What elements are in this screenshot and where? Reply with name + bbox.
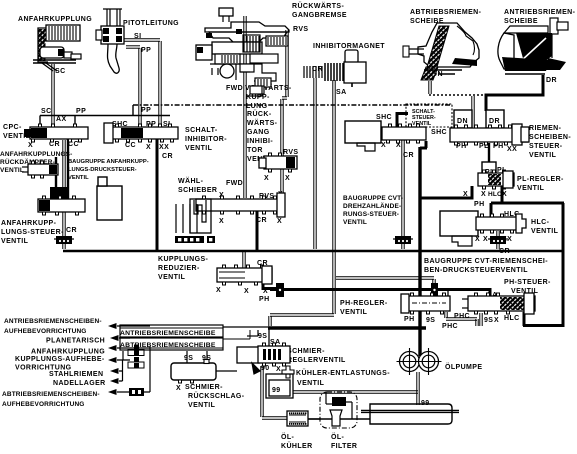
svg-text:X: X [219,218,224,225]
svg-text:PHC: PHC [442,323,458,330]
svg-text:XX: XX [507,146,517,153]
svg-text:NADELLAGER: NADELLAGER [53,380,106,387]
svg-text:ABTRIEBSRIEMENSCHEIBEN-: ABTRIEBSRIEMENSCHEIBEN- [2,391,100,398]
svg-text:VORRICHTUNG: VORRICHTUNG [15,365,72,372]
svg-text:RUNGS-STEUER-: RUNGS-STEUER- [343,211,399,218]
svg-text:RÜCKWÄRTS-: RÜCKWÄRTS- [292,1,344,10]
svg-text:ANTRIEBSRIEMEN-: ANTRIEBSRIEMEN- [504,9,576,16]
svg-text:PH: PH [259,296,270,303]
svg-text:PITOTLEITUNG: PITOTLEITUNG [123,20,179,27]
svg-text:RVS: RVS [293,26,308,33]
svg-text:LUNGS-STEUER-: LUNGS-STEUER- [1,229,64,236]
svg-text:BAUGRUPPE CVT-: BAUGRUPPE CVT- [343,195,403,202]
svg-text:BAUGRUPPE ANFAHRKUPP-: BAUGRUPPE ANFAHRKUPP- [68,159,149,165]
svg-text:ANFAHRKUPPLUNGS-: ANFAHRKUPPLUNGS- [0,151,72,158]
svg-text:HLC: HLC [504,315,520,322]
svg-text:RÜCK-: RÜCK- [247,109,272,118]
svg-text:X: X [463,191,468,198]
svg-text:X: X [481,191,486,198]
svg-text:STAHLRIEMEN: STAHLRIEMEN [49,371,103,378]
svg-text:PL-REGLER-: PL-REGLER- [517,176,564,183]
svg-text:PHC: PHC [454,313,470,320]
svg-text:PH: PH [474,201,485,208]
svg-text:TOR: TOR [247,147,263,154]
svg-text:SCHIEBER: SCHIEBER [178,187,217,194]
svg-text:AUFHEBEVORRICHTUNG: AUFHEBEVORRICHTUNG [2,401,85,408]
svg-text:CC: CC [125,142,136,149]
svg-text:KÜHLER: KÜHLER [281,441,313,449]
svg-text:99: 99 [272,387,281,394]
svg-text:DN: DN [457,118,468,125]
svg-text:VENTIL: VENTIL [158,274,186,281]
svg-text:LUNGS-DRUCKSTEUER-: LUNGS-DRUCKSTEUER- [68,167,137,173]
svg-text:BAUGRUPPE CVT-RIEMENSCHEI-: BAUGRUPPE CVT-RIEMENSCHEI- [424,258,548,265]
svg-text:PH-REGLER-: PH-REGLER- [340,300,388,307]
svg-text:RVS: RVS [283,149,298,156]
svg-text:X: X [28,142,33,149]
svg-text:X: X [216,287,221,294]
svg-text:SA: SA [336,89,347,96]
svg-text:X: X [285,175,290,182]
svg-text:9S: 9S [426,317,435,324]
svg-text:ÖL-: ÖL- [281,432,295,441]
svg-text:WÄHL-: WÄHL- [178,177,204,185]
svg-text:DREHZAHLÄNDE-: DREHZAHLÄNDE- [343,202,401,210]
svg-text:FWD: FWD [226,85,243,92]
svg-text:SCHMIER-: SCHMIER- [287,348,325,355]
svg-text:RIEMEN-: RIEMEN- [529,125,562,132]
svg-text:X: X [244,288,249,295]
svg-text:X: X [276,366,281,373]
svg-text:ABTRIEBSRIEMEN-: ABTRIEBSRIEMEN- [410,9,482,16]
svg-text:DR: DR [546,77,557,84]
svg-text:X: X [381,142,386,149]
svg-text:BEN-DRUCKSTEUERVENTIL: BEN-DRUCKSTEUERVENTIL [424,267,528,274]
svg-text:X: X [176,385,181,392]
svg-text:AUFHEBEVORRICHTUNG: AUFHEBEVORRICHTUNG [4,328,87,335]
svg-text:PP: PP [141,47,151,54]
svg-text:SC: SC [55,68,66,75]
svg-text:X: X [277,218,282,225]
svg-text:VENTIL: VENTIL [412,121,432,127]
svg-text:DR: DR [489,118,500,125]
svg-text:LUNG: LUNG [246,103,268,110]
svg-text:SC: SC [41,108,52,115]
svg-text:VENTIL: VENTIL [188,402,216,409]
svg-text:VENTIL: VENTIL [343,219,367,226]
svg-text:SCHEIBEN-: SCHEIBEN- [529,134,571,141]
svg-text:KÜHLER-ENTLASTUNGS-: KÜHLER-ENTLASTUNGS- [296,368,390,377]
svg-text:X: X [494,317,499,324]
svg-text:ANFAHRKUPPLUNG: ANFAHRKUPPLUNG [18,16,92,23]
svg-text:RÜCKSCHLAG-: RÜCKSCHLAG- [188,391,245,400]
svg-text:X: X [264,175,269,182]
svg-text:CPC-: CPC- [3,124,22,131]
svg-text:X: X [475,236,480,243]
svg-text:VENTIL: VENTIL [0,167,24,174]
svg-text:INHIBITOR-: INHIBITOR- [185,136,227,143]
svg-text:REGLERVENTIL: REGLERVENTIL [287,357,346,364]
svg-text:PH-STEUER-: PH-STEUER- [504,279,551,286]
svg-text:FWD: FWD [226,180,243,187]
svg-text:SCHMIER-: SCHMIER- [185,384,223,391]
svg-text:HLC-: HLC- [531,219,550,226]
svg-text:VENTIL: VENTIL [297,380,325,387]
svg-text:ÖLPUMPE: ÖLPUMPE [445,362,482,371]
svg-text:REDUZIER-: REDUZIER- [158,265,200,272]
svg-text:SCHALT-: SCHALT- [185,127,218,134]
svg-text:X: X [483,236,488,243]
svg-text:VENTIL: VENTIL [531,228,559,235]
svg-text:9S: 9S [184,355,193,362]
svg-text:INHIBI-: INHIBI- [247,138,273,145]
svg-text:SCHEIBE: SCHEIBE [504,18,538,25]
svg-text:VENTIL: VENTIL [517,185,545,192]
svg-text:KUPPLUNGS-AUFHEBE-: KUPPLUNGS-AUFHEBE- [15,356,105,363]
svg-text:PP: PP [141,107,151,114]
svg-text:VENTIL: VENTIL [185,145,213,152]
svg-text:PH: PH [404,316,415,323]
svg-text:KUPPLUNGS-: KUPPLUNGS- [158,256,209,263]
svg-text:GANG: GANG [247,129,270,136]
svg-text:VENTIL: VENTIL [68,175,89,181]
svg-text:CR: CR [66,227,77,234]
svg-text:CR: CR [162,153,173,160]
svg-text:ANFAHRKUPPLUNG: ANFAHRKUPPLUNG [31,349,105,356]
svg-text:VENTIL: VENTIL [529,152,557,159]
svg-text:X: X [146,144,151,151]
svg-text:VENTIL: VENTIL [1,238,29,245]
svg-text:PP: PP [76,108,86,115]
svg-text:ANFAHRKUPP-: ANFAHRKUPP- [1,220,57,227]
svg-text:SHC: SHC [376,114,392,121]
svg-text:GANGBREMSE: GANGBREMSE [292,12,347,19]
svg-text:KUPP-: KUPP- [246,94,270,101]
svg-text:PLANETARISCH: PLANETARISCH [46,338,105,345]
svg-text:9S: 9S [258,333,267,340]
svg-text:HLC: HLC [488,191,502,198]
svg-text:ANTRIEBSRIEMENSCHEIBE: ANTRIEBSRIEMENSCHEIBE [120,330,216,337]
svg-text:WÄRTS-: WÄRTS- [247,119,278,127]
svg-text:9S: 9S [484,317,493,324]
svg-text:XX: XX [159,144,169,151]
svg-text:INHIBITORMAGNET: INHIBITORMAGNET [313,43,385,50]
svg-text:VENTIL: VENTIL [340,309,368,316]
svg-text:ANTRIEBSRIEMENSCHEIBEN-: ANTRIEBSRIEMENSCHEIBEN- [4,318,102,325]
svg-text:ÖL-: ÖL- [331,432,345,441]
svg-text:STEUER-: STEUER- [529,143,563,150]
svg-text:CR: CR [312,66,323,73]
svg-text:FILTER: FILTER [331,443,357,449]
svg-text:SHC: SHC [431,129,447,136]
svg-text:AX: AX [56,116,67,123]
